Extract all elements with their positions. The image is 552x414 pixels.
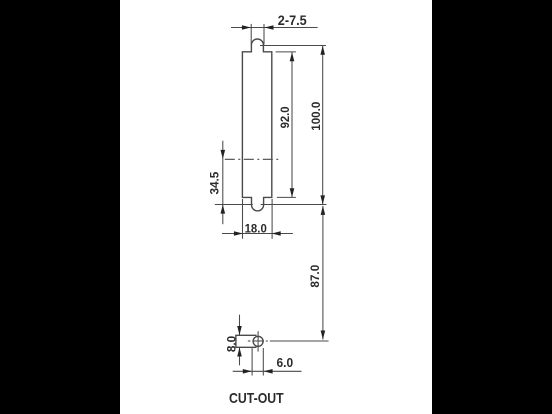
svg-text:100.0: 100.0 bbox=[309, 101, 323, 130]
svg-text:6.0: 6.0 bbox=[277, 355, 294, 370]
svg-text:34.5: 34.5 bbox=[210, 171, 222, 195]
svg-text:8.0: 8.0 bbox=[226, 336, 238, 352]
svg-text:2-7.5: 2-7.5 bbox=[278, 13, 307, 28]
svg-text:92.0: 92.0 bbox=[278, 106, 292, 128]
svg-text:CUT-OUT: CUT-OUT bbox=[229, 390, 284, 407]
svg-text:87.0: 87.0 bbox=[310, 265, 322, 288]
svg-text:18.0: 18.0 bbox=[245, 224, 267, 236]
